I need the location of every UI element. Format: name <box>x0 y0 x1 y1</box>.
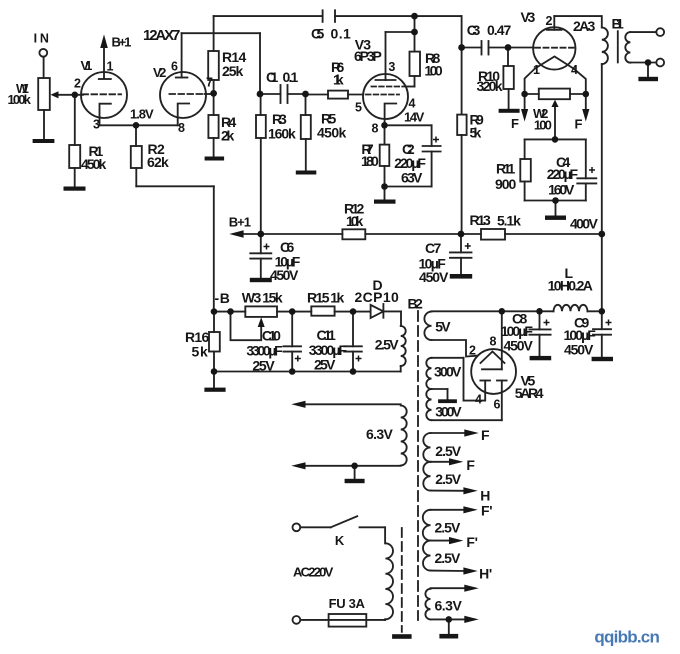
svg-text:C6: C6 <box>280 239 295 255</box>
svg-text:C7: C7 <box>425 240 442 256</box>
svg-text:0.1: 0.1 <box>283 69 299 85</box>
svg-text:F': F' <box>466 534 477 550</box>
svg-text:-B: -B <box>215 290 230 306</box>
svg-text:2: 2 <box>546 14 553 28</box>
svg-text:6P3P: 6P3P <box>354 48 382 64</box>
svg-text:C5: C5 <box>311 26 325 42</box>
svg-text:V1: V1 <box>81 58 93 73</box>
svg-text:F: F <box>466 457 475 473</box>
svg-text:F: F <box>511 116 519 131</box>
svg-text:2k: 2k <box>221 128 235 144</box>
svg-text:160k: 160k <box>268 126 296 142</box>
svg-text:100: 100 <box>534 117 552 132</box>
svg-text:R11: R11 <box>496 161 516 177</box>
svg-text:8: 8 <box>178 121 185 135</box>
svg-text:1k: 1k <box>333 71 344 87</box>
svg-text:220µF: 220µF <box>547 166 579 182</box>
svg-text:AC220V: AC220V <box>293 565 334 580</box>
svg-text:63V: 63V <box>401 169 423 185</box>
svg-text:F': F' <box>481 503 492 519</box>
svg-text:14V: 14V <box>404 110 425 125</box>
svg-text:8: 8 <box>490 335 497 349</box>
svg-text:10H0.2A: 10H0.2A <box>548 278 593 294</box>
svg-text:V2: V2 <box>153 65 166 80</box>
svg-text:K: K <box>335 533 345 548</box>
svg-text:450k: 450k <box>317 125 347 141</box>
svg-text:F: F <box>481 427 490 443</box>
svg-text:2: 2 <box>74 77 81 91</box>
svg-text:100: 100 <box>424 63 443 79</box>
svg-text:2: 2 <box>469 344 476 358</box>
svg-text:400V: 400V <box>570 216 598 232</box>
svg-text:qqibb.cn: qqibb.cn <box>594 628 660 647</box>
svg-text:2.5V: 2.5V <box>435 520 461 536</box>
svg-text:450V: 450V <box>419 269 449 285</box>
svg-text:450V: 450V <box>270 267 299 283</box>
svg-text:4: 4 <box>571 63 578 77</box>
svg-text:10k: 10k <box>346 213 364 229</box>
svg-text:25V: 25V <box>314 357 336 373</box>
svg-text:IN: IN <box>34 32 49 46</box>
svg-text:0.1: 0.1 <box>331 26 352 42</box>
svg-text:2.5V: 2.5V <box>435 550 461 566</box>
svg-text:0.47: 0.47 <box>487 22 512 38</box>
svg-text:5k: 5k <box>192 344 209 360</box>
svg-text:B+1: B+1 <box>112 35 132 50</box>
svg-text:W3 15k: W3 15k <box>242 290 283 306</box>
svg-text:300V: 300V <box>434 364 462 380</box>
svg-text:V3: V3 <box>521 9 536 25</box>
svg-text:R13: R13 <box>470 212 492 228</box>
svg-text:B+1: B+1 <box>229 215 251 230</box>
svg-text:H': H' <box>479 566 492 582</box>
svg-text:8: 8 <box>372 122 379 136</box>
svg-text:450V: 450V <box>564 342 594 358</box>
svg-text:5: 5 <box>355 101 362 115</box>
svg-text:25V: 25V <box>252 358 275 374</box>
svg-text:3300µF: 3300µF <box>246 343 283 359</box>
svg-text:300V: 300V <box>435 404 462 420</box>
svg-text:2.5V: 2.5V <box>435 471 461 487</box>
svg-text:C3: C3 <box>467 22 481 38</box>
svg-text:5.1k: 5.1k <box>497 212 521 228</box>
svg-text:6.3V: 6.3V <box>366 426 393 442</box>
svg-text:1.8V: 1.8V <box>130 106 154 121</box>
svg-text:5V: 5V <box>435 319 451 335</box>
svg-text:3: 3 <box>388 60 395 74</box>
svg-text:C10: C10 <box>262 328 281 344</box>
svg-text:4: 4 <box>475 393 482 407</box>
svg-text:C1: C1 <box>266 69 279 85</box>
svg-text:1: 1 <box>107 60 114 74</box>
svg-text:R15 1k: R15 1k <box>307 290 345 306</box>
svg-text:6: 6 <box>171 59 178 73</box>
svg-text:2.5V: 2.5V <box>435 443 461 459</box>
svg-text:4: 4 <box>409 97 416 111</box>
svg-text:900: 900 <box>495 176 517 192</box>
svg-text:B2: B2 <box>408 296 424 312</box>
svg-text:62k: 62k <box>147 154 169 170</box>
svg-text:6: 6 <box>494 398 501 412</box>
svg-text:180: 180 <box>361 153 379 169</box>
svg-text:FU 3A: FU 3A <box>329 596 366 611</box>
svg-text:2A3: 2A3 <box>573 18 596 34</box>
svg-text:H: H <box>480 488 490 504</box>
svg-text:320k: 320k <box>477 78 503 94</box>
svg-text:3: 3 <box>93 118 100 132</box>
svg-text:25k: 25k <box>222 63 244 79</box>
svg-text:5AR4: 5AR4 <box>515 385 544 401</box>
svg-text:7: 7 <box>206 76 213 90</box>
svg-text:450k: 450k <box>81 156 107 172</box>
svg-text:B1: B1 <box>612 15 625 31</box>
svg-text:1: 1 <box>533 63 540 77</box>
svg-text:F: F <box>575 117 583 132</box>
svg-text:6.3V: 6.3V <box>435 598 463 614</box>
svg-text:160V: 160V <box>548 182 575 198</box>
svg-text:450V: 450V <box>504 338 534 354</box>
svg-text:12AX7: 12AX7 <box>143 27 180 44</box>
svg-text:C11: C11 <box>317 327 337 343</box>
svg-text:100k: 100k <box>8 92 32 107</box>
svg-text:2CP10: 2CP10 <box>355 289 400 305</box>
svg-text:5k: 5k <box>470 125 482 141</box>
svg-text:2.5V: 2.5V <box>375 337 399 353</box>
